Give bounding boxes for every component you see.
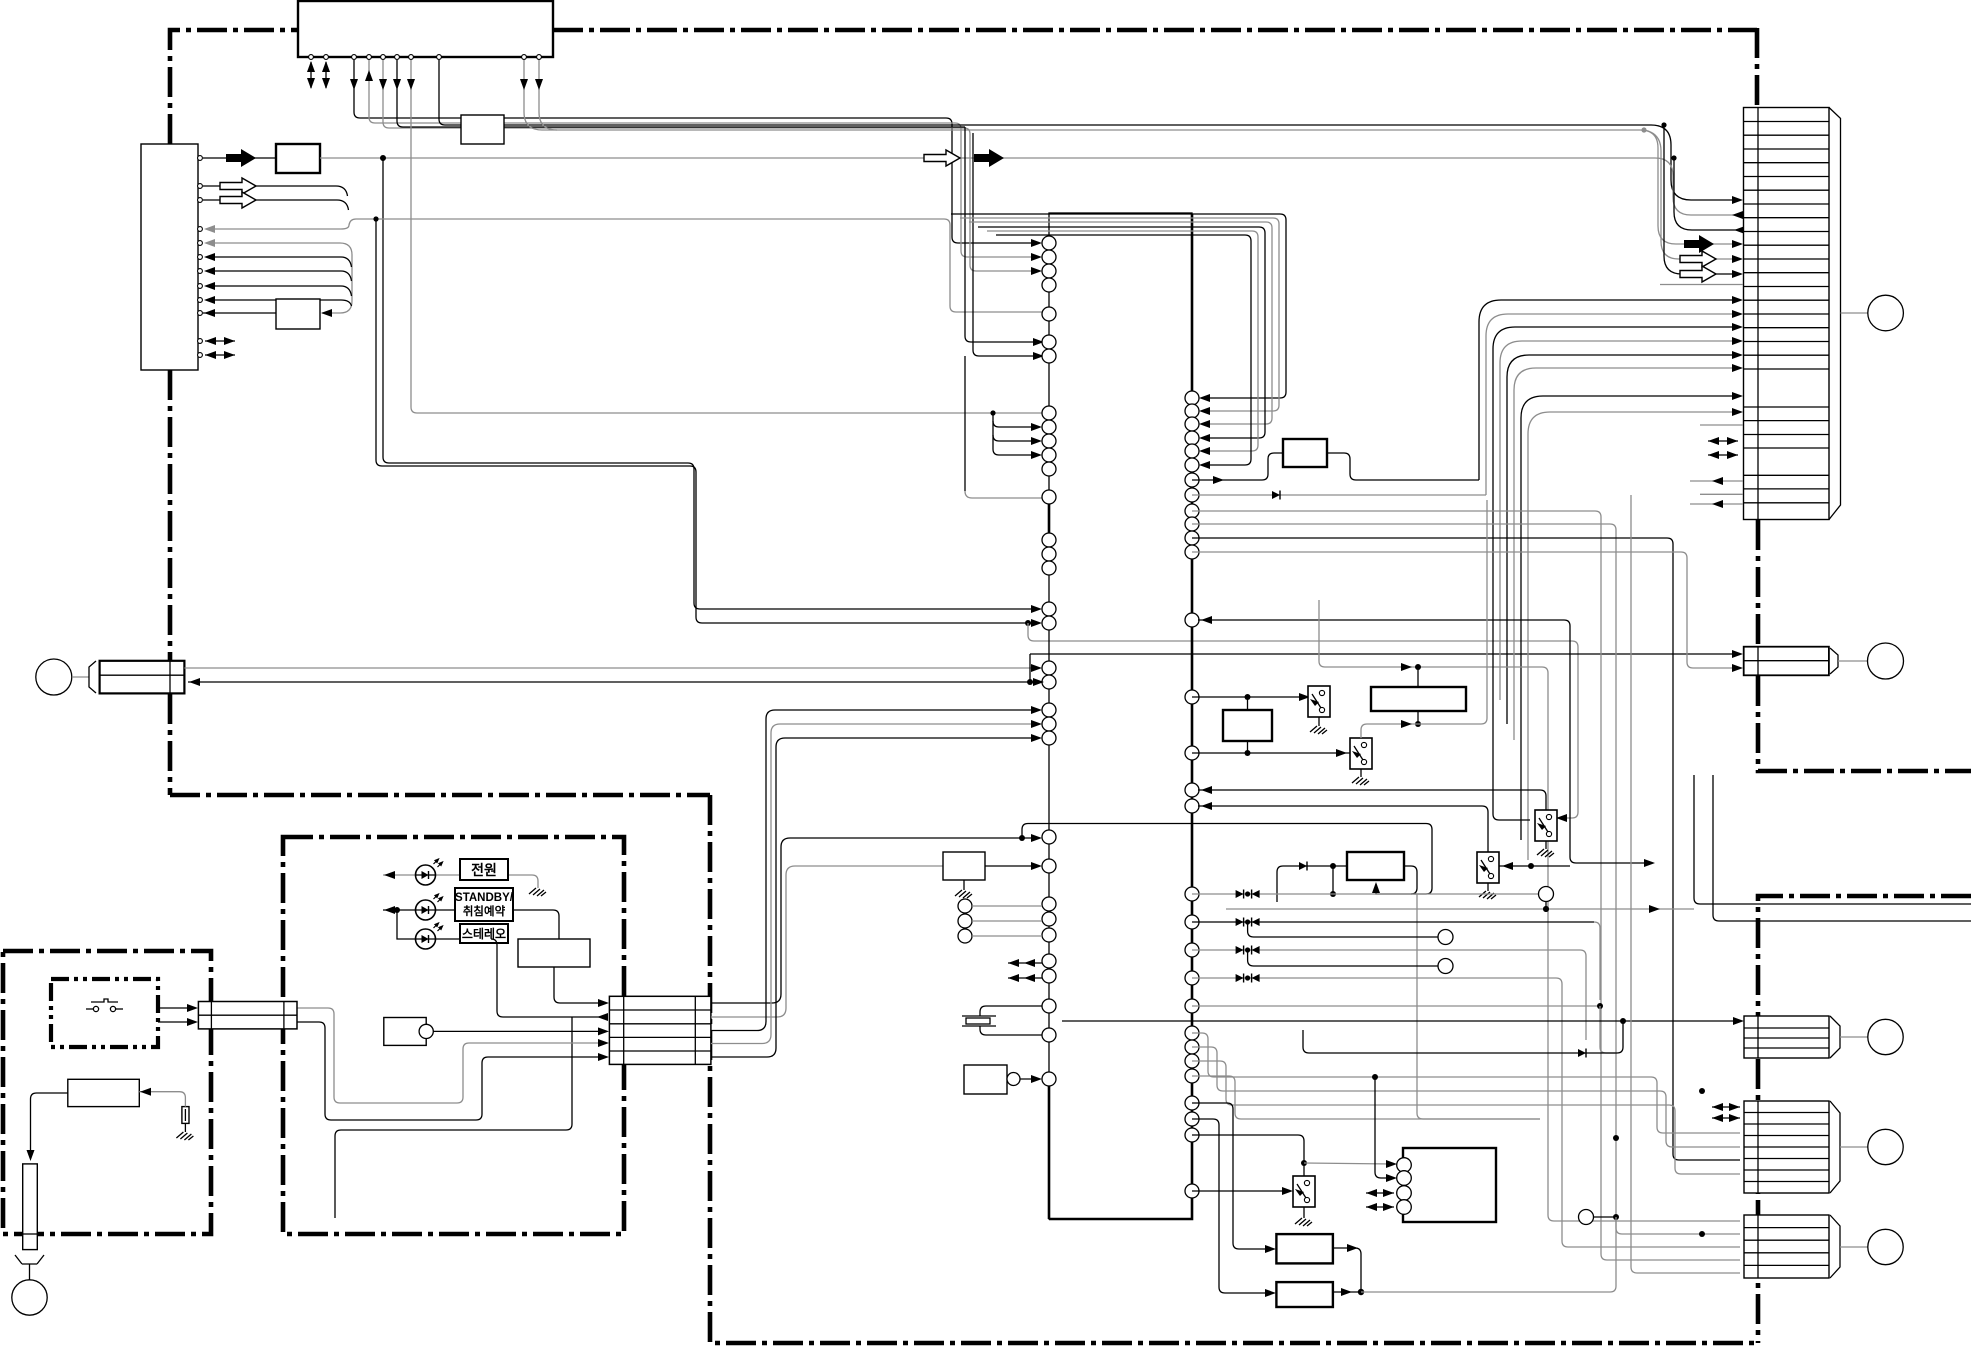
reset box B601 with circle <box>964 1065 1042 1094</box>
AC detect switch S203 <box>1535 810 1557 841</box>
gray line from junction 623 down and right (to mid right) <box>1028 623 1578 818</box>
antenna stub <box>72 676 89 678</box>
svg-text:취침예약: 취침예약 <box>463 904 506 918</box>
diode pair row 950 <box>1192 946 1586 1041</box>
pins of U100 <box>309 55 542 60</box>
head switch S205 <box>1192 1160 1397 1226</box>
bus riser to IC pin 497 <box>965 356 1042 498</box>
wire B301 to connector <box>554 967 605 1003</box>
power switch symbol S601 <box>86 999 123 1012</box>
tuner outline arrow 1 <box>203 178 348 196</box>
T601 wire down to fuse <box>27 1093 68 1161</box>
gray wire into B102 from top junction <box>321 309 332 317</box>
AC cord F601 <box>23 1164 38 1250</box>
display connector CN301 <box>609 996 711 1064</box>
IC pin 620 wire from right vertical <box>1198 616 1655 867</box>
CN504 double arrows <box>1712 1103 1740 1111</box>
wire branch to CN501 pin 259 <box>1644 130 1739 259</box>
stereo LED D303 wire <box>395 908 491 939</box>
wire D302 down to driver box <box>553 910 559 939</box>
servo bundle from IC right pins 1033-1076 <box>1192 1033 1740 1174</box>
antenna bracket <box>89 661 96 693</box>
wire branch to CN501 out pin 230 <box>1671 155 1745 234</box>
row2 out arrow <box>572 1013 608 1021</box>
B7 circle2 wire from vertical <box>1375 1077 1397 1182</box>
IC pin 1006 wire right <box>1192 1005 1600 1007</box>
IC pin 552 gray to phones CN502 <box>1192 552 1739 668</box>
svg-text:스테레오: 스테레오 <box>462 926 506 941</box>
IC right pin 790 wire from S203 <box>1198 786 1546 810</box>
feedback loop line y823 <box>1022 824 1432 895</box>
B4 power reg box <box>1347 852 1404 880</box>
gray wire 907 long <box>1226 905 1694 913</box>
ground of S203 <box>1537 841 1554 857</box>
standby LED D302 <box>416 894 443 920</box>
wire X101 to CN501 pin (long black top wire) <box>504 125 1739 200</box>
svg-text:STANDBY/: STANDBY/ <box>455 892 514 904</box>
power feed gray wires <box>297 1008 605 1103</box>
connector circle P501 <box>1841 312 1869 314</box>
D301 ground <box>529 875 546 896</box>
CN501 lower wire group from mid-board verticals <box>1479 296 1743 860</box>
IC pin 495 wire with diode <box>1192 491 1486 500</box>
x1493 vertical lower part to y820 region <box>1493 660 1530 820</box>
wire into S204 right w/ junction <box>1499 862 1570 870</box>
tuner outline arrow 2 <box>203 192 349 210</box>
main board border top <box>170 30 298 144</box>
ground of S201 <box>1310 717 1327 734</box>
speaker connector CN505 <box>1744 1215 1903 1278</box>
fuse resistor R601 <box>182 1107 189 1124</box>
IC pin 480 wire to reset box <box>1192 453 1283 484</box>
AM antenna black wire from IC junction <box>188 678 1044 686</box>
relay RY201 <box>1371 687 1466 711</box>
wires from IC pins 1103-1135 down to B5/B6 <box>1192 1103 1304 1297</box>
CN301 wires to IC pins (5 risers) <box>711 838 1038 1003</box>
IC pin 538 wire down x1673 <box>1192 538 1740 1160</box>
gray wire across top of relay <box>1319 600 1740 1221</box>
speaker connector CN504 <box>1712 1101 1903 1193</box>
plain gray stubs <box>1660 284 1743 286</box>
transformer T601 <box>68 1079 140 1106</box>
power LED D301 wire <box>383 871 532 879</box>
wire branch to CN501 pin 274 w/ open arrow <box>1661 122 1743 282</box>
wire U100 gray 2 to CN501 w/ open arrow <box>535 60 1743 267</box>
B5 B6 output wires <box>1333 1210 1619 1297</box>
STANDBY label box <box>455 888 514 921</box>
ground of S204 <box>1479 883 1496 899</box>
IC out arrows to left at 342/356 <box>965 127 1044 346</box>
wire B201 out to vertical <box>1327 453 1479 480</box>
IC bus thick right/bottom edge <box>1049 214 1192 1219</box>
motor block B7 <box>1403 1148 1496 1222</box>
IC pin 524 wire down x1616 <box>1192 524 1616 1217</box>
STEREO label box <box>460 924 508 943</box>
key circles group <box>958 899 1042 943</box>
IC pin 697 wire to mute switch <box>1192 693 1313 701</box>
timer switch S204 <box>1477 852 1499 883</box>
B4 right wire loop <box>1404 866 1417 894</box>
mute switch S201 <box>1308 686 1330 717</box>
bidirectional arrows pin1 <box>307 61 315 89</box>
wire U100 gray to CN501 w/ big arrow <box>520 60 1743 253</box>
B4 vertical gray below <box>1417 894 1540 1119</box>
diode pair row 922 <box>1192 918 1600 1001</box>
wire B102 to tuner pin <box>203 309 276 317</box>
wire U100 pin to filter box X101 <box>439 60 461 125</box>
left pins of IC601 <box>1042 236 1056 1086</box>
relay bottom lead to junction <box>1361 500 1487 738</box>
antenna jack connector CN101 <box>100 661 185 694</box>
connector chamfer edge <box>1829 108 1841 520</box>
B4 left wire with diode <box>1277 862 1347 903</box>
branch wires to IC pins 427/441/455 <box>990 410 1042 459</box>
FM antenna gray wire to IC <box>184 664 1042 672</box>
right pins of IC601 <box>1185 391 1199 1198</box>
AC plug <box>15 1255 44 1280</box>
ground of S202 <box>1352 769 1369 785</box>
tuner block TU101 <box>141 144 198 370</box>
second wire to IC pin 623 <box>376 219 1038 623</box>
IC bus thick left segment <box>1048 504 1051 534</box>
AC connector CN503 <box>1744 1016 1903 1058</box>
motor drive box B6 <box>1276 1282 1333 1307</box>
IC pin 511 gray wire right and down <box>1192 511 1740 1260</box>
wire tuner to box with big arrow <box>203 149 276 167</box>
LED driver box B301 <box>518 939 590 967</box>
box B101 <box>276 144 320 173</box>
R601 wire to T601 <box>139 1088 185 1107</box>
sensor wire to connector <box>433 1027 609 1035</box>
reset IC box B603 <box>943 852 985 880</box>
bottom right board border <box>1758 896 1971 1343</box>
diode pair row 978 <box>1192 974 1740 1248</box>
cap B202 between <box>1223 710 1272 741</box>
bottom middle board border <box>710 795 1758 1343</box>
IC double arrows at 961/976 <box>1008 959 1042 967</box>
long wire to phones jack CN502 <box>1030 650 1743 658</box>
R601 ground <box>176 1123 193 1140</box>
wire bundle U100 to IC left pins <box>350 60 1042 459</box>
svg-text:전원: 전원 <box>471 862 497 878</box>
B7 terminal circles <box>1397 1158 1412 1215</box>
tuner double arrows <box>205 337 235 345</box>
antenna circle <box>36 659 72 695</box>
IC pin 753 wire to beat switch <box>1192 749 1350 757</box>
filter box X101 <box>461 115 504 144</box>
window wires exiting right edge <box>1694 775 1971 904</box>
wire D303 down to connector <box>491 939 572 1017</box>
IC right pin 806 wire from S204 <box>1198 802 1488 852</box>
junction on gray 894 line <box>1332 866 1334 894</box>
diode pair row 894 <box>1192 887 1554 913</box>
AC out wire to CN503 <box>1062 1017 1744 1058</box>
standby LED D302 wire <box>383 906 553 914</box>
C5 bundle extra wires <box>1616 495 1740 1273</box>
switch wires to power connector <box>158 1004 198 1012</box>
power connector CN601 <box>198 1002 297 1029</box>
box B102 (AM det) <box>276 299 320 329</box>
main board border left lower <box>168 370 173 660</box>
single left arrows w stubs <box>1690 477 1743 485</box>
beat switch S202 <box>1350 738 1372 769</box>
remote sensor box B302 <box>384 1018 426 1046</box>
double arrows on CN501 <box>1708 437 1738 445</box>
power LED D301 <box>416 859 443 885</box>
vertical link to phones line <box>1029 654 1031 682</box>
bidirectional arrows pin2 <box>322 61 330 89</box>
main board border right <box>1756 520 1761 646</box>
B7 double arrows <box>1366 1189 1394 1197</box>
crystal X601 <box>962 1006 1042 1035</box>
IC bus outline <box>1049 213 1192 1219</box>
reset box B201 <box>1283 439 1327 467</box>
relay coil top lead <box>1417 667 1419 687</box>
stereo LED D303 <box>416 923 443 949</box>
black vertical from junction 383 down <box>383 158 1038 609</box>
branch from pin1006 line down <box>1600 1006 1617 1053</box>
LED label box 전원 <box>460 859 508 880</box>
motor drive box B5 <box>1276 1234 1333 1263</box>
tuner input wires from IC (5 lines) <box>204 216 1042 313</box>
wires from top bundle across IC to right pins 398-465 <box>951 214 1286 469</box>
tuner pins <box>198 156 203 358</box>
gray wire B101 to CN501 (long) <box>320 149 1743 219</box>
system control block U100 <box>298 1 553 57</box>
row2 vertical down <box>335 1017 572 1218</box>
